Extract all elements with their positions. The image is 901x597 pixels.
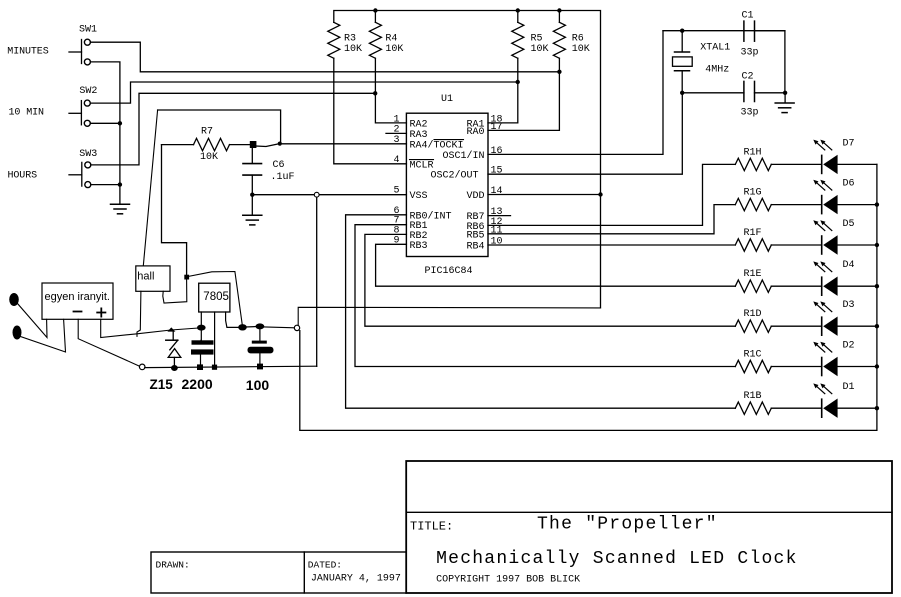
svg-text:R1H: R1H	[744, 147, 762, 158]
wire R5 bottom to RA1 pin 18	[488, 58, 518, 123]
wire R1D to D3	[771, 325, 821, 327]
svg-text:D4: D4	[843, 260, 855, 271]
svg-text:D5: D5	[843, 219, 855, 230]
svg-text:R1C: R1C	[744, 350, 762, 361]
title block main box	[406, 461, 892, 593]
svg-text:R1F: R1F	[744, 228, 762, 239]
capacitor C1	[744, 21, 755, 41]
svg-text:100: 100	[246, 377, 270, 393]
wire AC2 to rectifier	[21, 319, 66, 352]
svg-text:hall: hall	[137, 271, 154, 283]
wire RB6 pin 12 to R1H	[488, 164, 735, 225]
svg-text:RA3: RA3	[410, 130, 428, 141]
terminal plus sign	[97, 308, 105, 316]
wire RB5 pin 11 to R1G	[488, 205, 735, 234]
svg-text:4MHz: 4MHz	[705, 65, 729, 76]
capacitor 100	[248, 329, 274, 367]
svg-text:HOURS: HOURS	[8, 170, 38, 181]
svg-text:10K: 10K	[531, 44, 549, 55]
wire VDD pin 14	[488, 194, 601, 196]
node bus junction D5	[875, 243, 879, 247]
svg-text:VDD: VDD	[467, 191, 485, 202]
wire C6 to VSS pin 5	[252, 194, 406, 196]
svg-text:14: 14	[491, 186, 503, 197]
wire D6 anode to bus	[838, 204, 877, 206]
resistor R1E	[735, 280, 771, 292]
node VDD junction	[598, 192, 602, 196]
node VSS open circle junction	[314, 192, 319, 197]
node bus junction D1	[875, 406, 879, 410]
wire R1G to D6	[771, 204, 821, 206]
node hall signal dot	[278, 142, 282, 146]
svg-text:Mechanically Scanned LED Clock: Mechanically Scanned LED Clock	[436, 549, 798, 569]
svg-text:R3: R3	[344, 34, 356, 45]
resistor R3	[328, 22, 340, 58]
wire C2 row	[682, 92, 785, 94]
svg-text:10K: 10K	[200, 152, 218, 163]
svg-text:SW2: SW2	[79, 86, 97, 97]
wire crystal top rail	[663, 30, 785, 32]
capacitor C6	[243, 148, 262, 195]
resistor R1G	[735, 198, 771, 210]
wire D5 anode to bus	[838, 244, 877, 246]
resistor R1B	[735, 402, 771, 414]
wire 7805 output lead	[226, 312, 239, 327]
svg-text:33p: 33p	[741, 47, 759, 58]
svg-text:TITLE:: TITLE:	[410, 520, 453, 534]
wire AC1 to rectifier	[18, 304, 48, 338]
node crystal bottom junction	[680, 91, 684, 95]
svg-text:3: 3	[394, 135, 400, 146]
wire R3 bottom to MCLR pin 4	[334, 58, 407, 164]
wire R1H to D7	[771, 163, 821, 165]
wire rectifier minus to ground rail	[78, 319, 140, 366]
node 7805 input blob	[197, 325, 206, 331]
LED D4	[813, 261, 837, 296]
svg-text:10K: 10K	[572, 44, 590, 55]
wire SW1 bottom to common	[90, 62, 120, 204]
crystal XTAL1	[673, 31, 693, 93]
node R6 top junction	[557, 8, 561, 12]
svg-text:.1uF: .1uF	[271, 172, 295, 183]
svg-text:MCLR: MCLR	[410, 160, 434, 171]
wire D4 anode to bus	[838, 285, 877, 287]
resistor R4	[369, 11, 381, 59]
svg-text:RB3: RB3	[410, 241, 428, 252]
resistor R6	[553, 11, 565, 59]
node C6 bottom junction	[250, 193, 254, 197]
LED D3	[813, 301, 837, 336]
svg-text:D6: D6	[843, 179, 855, 190]
wire junction to RA4/TOCKI pin 3	[280, 143, 407, 145]
svg-text:R1B: R1B	[744, 391, 762, 402]
node R6 bottom junction with SW1 net	[557, 70, 561, 74]
wire D3 anode to bus	[838, 325, 877, 327]
LED D6	[813, 180, 837, 215]
resistor R1F	[735, 239, 771, 251]
svg-text:U1: U1	[441, 94, 453, 105]
wire SW2 top to RA1 net	[90, 82, 517, 103]
svg-text:RB5: RB5	[467, 230, 485, 241]
node C2 ground junction	[783, 91, 787, 95]
wire R7 left lead down to hall output node	[162, 145, 187, 275]
svg-text:D1: D1	[843, 382, 855, 393]
wire VSS down to ground rail	[316, 197, 318, 366]
resistor R1H	[735, 158, 771, 170]
svg-text:DATED:: DATED:	[308, 560, 342, 571]
node Z15 bottom blob	[171, 365, 178, 371]
wire 5V node to cap 100	[243, 325, 260, 328]
node 100 bottom square	[257, 364, 263, 370]
node R7/C6 junction blob	[250, 141, 257, 148]
svg-text:PIC16C84: PIC16C84	[425, 266, 473, 277]
node 7805 output blob	[238, 324, 247, 330]
arrow on plus rail	[167, 327, 175, 331]
svg-text:10: 10	[491, 237, 503, 248]
svg-text:15: 15	[491, 166, 503, 177]
svg-text:DRAWN:: DRAWN:	[156, 560, 190, 571]
rectifier box egyen iranyit.	[42, 283, 113, 319]
ground crystal	[775, 93, 794, 113]
title block left divider	[303, 552, 305, 593]
resistor R7	[162, 138, 251, 150]
wire R4 bottom to RA2 pin 1	[375, 58, 406, 123]
wire SW1 top to RA0 net	[90, 42, 559, 72]
title block left box	[151, 552, 406, 593]
svg-text:C2: C2	[742, 72, 754, 83]
svg-text:Z15: Z15	[150, 377, 174, 392]
title block divider line	[406, 511, 892, 513]
wire D2 anode to bus	[838, 366, 877, 368]
wire 5V up and right to VDD rail	[298, 307, 600, 325]
node cap 100 top blob	[256, 323, 265, 329]
LED D7	[813, 140, 837, 175]
node bus junction D4	[875, 284, 879, 288]
wire OSC2/OUT pin 15 to crystal bottom	[488, 93, 682, 174]
svg-text:7805: 7805	[203, 291, 229, 303]
wire RB0/INT pin 6 to R1B	[346, 215, 736, 408]
wire 7805 ground lead	[214, 312, 216, 367]
wire R1F to D5	[771, 244, 821, 246]
svg-text:RB4: RB4	[467, 242, 485, 253]
node bus junction D2	[875, 364, 879, 368]
node R5 top junction	[516, 8, 520, 12]
node R5 bottom junction with SW2 net	[516, 80, 520, 84]
svg-text:XTAL1: XTAL1	[700, 42, 730, 53]
resistor R1D	[735, 320, 771, 332]
svg-text:SW3: SW3	[79, 149, 97, 160]
hall sensor box	[136, 266, 170, 291]
svg-text:RA2: RA2	[410, 119, 428, 130]
wire C1 right to ground leg	[755, 31, 785, 93]
svg-text:The "Propeller": The "Propeller"	[537, 514, 718, 534]
svg-text:D7: D7	[843, 138, 855, 149]
svg-text:17: 17	[491, 122, 503, 133]
wire LED anode bus to +5V	[300, 164, 877, 430]
wire SW3 top to RA2 net	[91, 93, 375, 165]
wire slant into RA4 junction	[256, 144, 280, 147]
svg-text:COPYRIGHT 1997 BOB BLICK: COPYRIGHT 1997 BOB BLICK	[436, 575, 580, 586]
svg-text:OSC1/IN: OSC1/IN	[443, 150, 485, 162]
resistor R5	[512, 11, 524, 59]
svg-text:MINUTES: MINUTES	[7, 46, 48, 57]
ground switches	[111, 204, 130, 214]
svg-text:JANUARY 4, 1997: JANUARY 4, 1997	[311, 574, 401, 585]
wire RB2 pin 8 to R1D	[365, 234, 735, 326]
node bus junction D3	[875, 324, 879, 328]
svg-text:OSC2/OUT: OSC2/OUT	[431, 170, 479, 182]
svg-text:R7: R7	[201, 127, 213, 138]
node R4 top junction	[373, 8, 377, 12]
svg-text:11: 11	[491, 225, 503, 236]
LED D5	[813, 220, 837, 255]
svg-text:R5: R5	[531, 34, 543, 45]
wire SW2 bottom to common	[90, 122, 120, 124]
wire R6 bottom to RA0 pin 17	[488, 58, 559, 130]
svg-text:R1D: R1D	[744, 309, 762, 320]
svg-text:D2: D2	[843, 341, 855, 352]
wire OSC1/IN pin 16 to crystal	[488, 31, 663, 155]
switch SW3	[69, 162, 91, 188]
wire hall output diagonal to R7/C6 node	[143, 110, 157, 266]
terminal minus sign	[74, 311, 82, 313]
wire RB4 pin 10 to R1F	[488, 244, 735, 246]
svg-text:10K: 10K	[385, 44, 403, 55]
svg-text:VSS: VSS	[410, 191, 428, 202]
resistor R1C	[735, 360, 771, 372]
AC input blob 2	[13, 326, 22, 340]
svg-text:R1G: R1G	[744, 188, 762, 199]
svg-text:D3: D3	[843, 300, 855, 311]
wire SW3 bottom to common	[91, 184, 120, 186]
switch SW1	[69, 39, 90, 65]
AC input blob 1	[9, 293, 19, 306]
node SW2 common junction	[118, 121, 122, 125]
LED D2	[813, 342, 837, 377]
wire R1E to D4	[771, 285, 821, 287]
capacitor C2	[744, 81, 755, 101]
svg-text:R6: R6	[572, 34, 584, 45]
wire VDD top rail	[334, 11, 601, 308]
wire hall right lead to vcc node	[163, 279, 187, 303]
node hall vcc blob	[184, 275, 189, 280]
wire 7805 input lead	[200, 312, 202, 340]
wire rectifier plus to 7805 input rail	[101, 319, 202, 337]
wire RB3 pin 9 to R1E	[376, 244, 736, 286]
pin 13 RB7 stub	[488, 215, 511, 217]
svg-text:2: 2	[394, 124, 400, 135]
switch SW2	[69, 100, 90, 126]
wire hall vcc to 5V node	[189, 272, 243, 327]
op IC U1 PIC16C84 box	[406, 113, 488, 256]
node 2200 bottom square	[197, 364, 203, 370]
node 5V open circle	[294, 325, 299, 330]
wire D1 anode to bus	[838, 407, 877, 409]
node 7805 ground square	[212, 365, 217, 370]
node SW3 common junction	[118, 182, 122, 186]
svg-text:2200: 2200	[182, 376, 213, 392]
svg-text:5: 5	[394, 186, 400, 197]
node bus junction D6	[875, 202, 879, 206]
svg-text:egyen iranyit.: egyen iranyit.	[45, 291, 110, 303]
LED D1	[813, 383, 837, 418]
svg-text:C6: C6	[273, 160, 285, 171]
wire hall signal from y110 run	[158, 110, 281, 142]
wire R1C to D2	[771, 366, 821, 368]
svg-text:R4: R4	[385, 34, 397, 45]
wire 5V node to junction circle	[260, 327, 295, 328]
svg-text:RA4/TOCKI: RA4/TOCKI	[410, 139, 464, 151]
node R4 bottom junction with SW3 net	[373, 91, 377, 95]
svg-text:C1: C1	[742, 10, 754, 21]
svg-text:33p: 33p	[741, 108, 759, 119]
node crystal top junction	[680, 29, 684, 33]
zener Z15	[166, 332, 181, 366]
wire R1B to D1	[771, 407, 821, 409]
regulator 7805 box	[199, 283, 230, 312]
wire ground rail	[145, 366, 317, 367]
svg-text:SW1: SW1	[79, 25, 97, 36]
svg-text:RA0: RA0	[467, 127, 485, 138]
pin 2 RA3 stub	[386, 132, 406, 134]
svg-text:4: 4	[394, 155, 400, 166]
wire RB1 pin 7 to R1C	[355, 225, 735, 367]
wire hall left lead to plus rail	[137, 291, 141, 336]
svg-text:R1E: R1E	[744, 269, 762, 280]
svg-text:10 MIN: 10 MIN	[9, 107, 45, 118]
wire D7 anode to bus	[838, 163, 877, 165]
capacitor 2200	[191, 340, 214, 367]
svg-text:10K: 10K	[344, 44, 362, 55]
node ground rail open circle	[139, 364, 145, 370]
ground C6	[243, 195, 262, 225]
svg-text:16: 16	[491, 146, 503, 157]
